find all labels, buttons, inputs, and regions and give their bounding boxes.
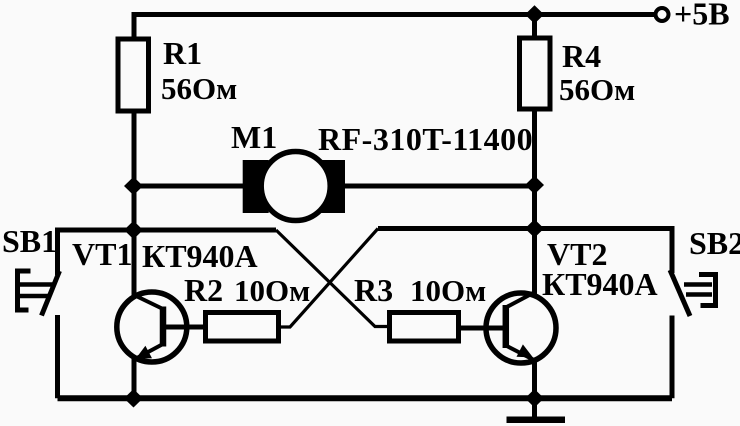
- svg-text:10Ом: 10Ом: [234, 273, 310, 308]
- svg-text:VT1: VT1: [72, 236, 132, 272]
- wire ground stub: [532, 398, 537, 417]
- wire SB2 lower contact: [670, 316, 675, 399]
- svg-text:КТ940А: КТ940А: [542, 266, 658, 302]
- svg-text:SB2: SB2: [689, 225, 740, 261]
- wire VT1 base to R2: [163, 325, 203, 330]
- wire motor right lead: [344, 184, 535, 189]
- wire top rail: [134, 15, 654, 38]
- motor M1 brushes: [243, 160, 269, 213]
- wire R1 bottom to left motor junction: [132, 112, 137, 186]
- wire VT1 collector feed: [132, 230, 137, 297]
- svg-text:+5В: +5В: [674, 0, 730, 32]
- svg-text:R2: R2: [184, 272, 223, 308]
- wire motor left lead: [134, 184, 245, 189]
- wire SB1 branch and left cross horizontal: [58, 230, 277, 275]
- svg-text:M1: M1: [231, 119, 277, 155]
- pushbutton SB2: [670, 270, 716, 316]
- motor M1 body: [261, 152, 330, 221]
- terminal +5V: [656, 8, 669, 21]
- wire R4 top stub: [532, 15, 537, 37]
- transistor VT2: [486, 292, 556, 364]
- svg-text:R3: R3: [354, 272, 393, 308]
- svg-text:10Ом: 10Ом: [410, 273, 486, 308]
- wire R3 to VT2 base: [461, 326, 505, 331]
- ground: [507, 416, 566, 423]
- wire right vertical junction to junction: [532, 186, 537, 229]
- wire bottom rail: [58, 395, 673, 401]
- pushbutton SB1: [18, 271, 60, 316]
- svg-text:RF-310T-11400: RF-310T-11400: [318, 121, 533, 157]
- node junction top right: [525, 5, 544, 24]
- svg-text:SB1: SB1: [2, 223, 57, 259]
- svg-text:56Ом: 56Ом: [559, 72, 635, 107]
- resistor R2: [206, 313, 279, 342]
- resistor R4: [520, 38, 551, 109]
- node junction motor left: [124, 177, 143, 196]
- wire VT2 collector feed: [532, 229, 537, 295]
- svg-text:R4: R4: [562, 38, 601, 74]
- node junction bottom left: [124, 389, 143, 408]
- wire diagonal right junction to R2: [281, 229, 378, 328]
- svg-text:КТ940А: КТ940А: [142, 238, 258, 274]
- wire VT2 emitter down: [532, 359, 537, 398]
- node junction cross right: [525, 219, 544, 238]
- node junction motor right: [525, 176, 544, 195]
- wire diagonal left junction to R3: [276, 230, 387, 327]
- wire left vertical junction to junction: [132, 186, 137, 230]
- node junction cross left: [124, 221, 143, 240]
- wire VT1 emitter down: [132, 358, 137, 398]
- transistor VT1: [117, 292, 187, 362]
- svg-text:56Ом: 56Ом: [161, 71, 237, 106]
- svg-text:R1: R1: [163, 35, 202, 71]
- wire SB1 lower contact: [55, 315, 60, 398]
- resistor R1: [118, 39, 149, 111]
- node junction bottom right: [525, 389, 544, 408]
- wire SB2 branch and right cross horizontal: [378, 229, 672, 274]
- wire R4 bottom to right motor junction: [532, 111, 537, 186]
- resistor R3: [390, 313, 459, 342]
